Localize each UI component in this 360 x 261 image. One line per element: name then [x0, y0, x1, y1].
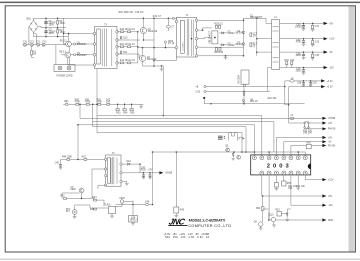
svg-text:R52: R52	[256, 208, 261, 210]
svg-text:470U: 470U	[140, 169, 146, 171]
IC U1 top pins	[252, 156, 307, 160]
resistor R15	[214, 23, 219, 28]
arrow PW-OK	[322, 127, 336, 131]
wire pin3 stub	[268, 152, 270, 156]
node tie mid	[137, 46, 139, 48]
capacitor C12	[127, 60, 135, 64]
resistor R52	[256, 207, 264, 210]
svg-text:R26: R26	[306, 143, 311, 145]
node fb row	[81, 198, 83, 200]
diode D5	[236, 42, 245, 46]
wire Q4 base	[61, 54, 65, 56]
wire mid rail A	[206, 86, 285, 88]
resistor R35	[130, 104, 135, 115]
svg-text:C39: C39	[312, 82, 317, 84]
svg-text:FR302: FR302	[228, 45, 236, 47]
choke L3	[290, 78, 294, 82]
svg-text:200V: 200V	[49, 33, 55, 35]
svg-text:R22 330: R22 330	[268, 98, 277, 100]
wire +5 fan rail	[276, 137, 322, 139]
node pin7	[297, 151, 299, 153]
svg-text:R7 10: R7 10	[168, 43, 175, 45]
Y-capacitor CY1	[36, 42, 41, 47]
resistor R42	[60, 196, 66, 200]
wire sec pin1	[198, 19, 244, 21]
resistor R33	[116, 104, 121, 115]
wire Q3 collector	[68, 34, 70, 42]
resistor R32	[97, 100, 103, 106]
wire sb rect out	[139, 164, 141, 173]
svg-text:C20: C20	[290, 60, 295, 62]
wire sense drop A	[262, 196, 264, 207]
IC U1 2003 body	[251, 155, 311, 175]
wire T3 sec row2	[117, 46, 138, 48]
arrow out row1	[322, 194, 332, 198]
ground startup row	[139, 104, 142, 108]
wire 5vsb row	[122, 172, 159, 174]
transistor Q2 main	[139, 55, 157, 61]
wire PW-OK rail	[309, 127, 323, 128]
varistor VR1	[64, 101, 69, 106]
svg-text:PS-ON: PS-ON	[328, 145, 336, 147]
capacitor C17	[250, 33, 258, 38]
wire -5v feed	[257, 51, 272, 53]
wire resistor leg	[57, 18, 59, 36]
wire T3 sec row3	[117, 62, 138, 64]
wire drive lower	[68, 58, 95, 65]
X-capacitor CX2	[29, 42, 34, 47]
wire 12v feed	[257, 38, 272, 40]
svg-text:470K: 470K	[85, 101, 91, 103]
wire +12V rail	[280, 38, 324, 40]
node midC2	[210, 103, 212, 105]
node colB top	[256, 18, 258, 20]
wire out row2	[291, 204, 323, 206]
bus B1	[97, 116, 262, 156]
optocoupler PC1	[66, 205, 90, 219]
node Q1 collector top	[143, 18, 145, 20]
node riser B	[92, 104, 94, 106]
node midC	[243, 103, 245, 105]
choke L4	[290, 115, 294, 119]
svg-text:R20: R20	[284, 60, 289, 62]
svg-text:C16: C16	[219, 52, 224, 54]
pin contact P2	[74, 53, 88, 57]
capacitor C47	[148, 169, 153, 178]
svg-text:2SC5027: 2SC5027	[77, 55, 87, 57]
svg-text:-12V: -12V	[329, 67, 334, 69]
svg-text:+12V: +12V	[328, 180, 334, 182]
arrow out row2	[322, 204, 333, 208]
wire Q1 collector	[142, 18, 144, 27]
wire bpin4 down	[283, 175, 285, 181]
wire P4 to T1	[175, 18, 177, 20]
wire T2 pin4 row	[98, 185, 106, 189]
node 12v feed	[256, 38, 258, 40]
svg-text:R21 1K: R21 1K	[250, 101, 258, 103]
capacitor C35	[311, 51, 320, 60]
svg-text:2003: 2003	[267, 163, 292, 169]
capacitor C33	[311, 38, 320, 47]
node tie top	[137, 31, 139, 33]
svg-text:200V: 200V	[49, 24, 55, 26]
resistor R17	[250, 43, 258, 48]
node half bridge top	[153, 18, 155, 20]
svg-text:330U: 330U	[296, 55, 302, 57]
wire pin4 up	[275, 138, 277, 156]
svg-text:R44: R44	[90, 209, 95, 211]
capacitor C36	[296, 67, 306, 75]
svg-text:FR302: FR302	[228, 33, 236, 35]
svg-text:+5VSB: +5VSB	[165, 173, 173, 175]
capacitor C31	[311, 23, 320, 32]
wire fb long row	[116, 204, 153, 206]
wire Q1 emitter	[142, 34, 144, 40]
svg-text:R6 2.2: R6 2.2	[59, 51, 66, 53]
node -5v feed	[256, 51, 258, 53]
resistor R41	[82, 156, 87, 160]
svg-text:C35: C35	[315, 55, 320, 57]
bus B4	[78, 125, 254, 152]
svg-text:150K: 150K	[60, 23, 66, 25]
wire sec pin4	[198, 46, 244, 48]
wire connector left leg	[55, 45, 57, 65]
IC U3	[303, 122, 312, 134]
svg-text:C52: C52	[288, 188, 293, 190]
scan shadow right	[349, 6, 355, 252]
choke L1	[272, 17, 280, 69]
node colA top	[243, 20, 245, 22]
resistor R44	[90, 208, 96, 211]
svg-text:MODEL:LC-B250ATX: MODEL:LC-B250ATX	[189, 218, 226, 222]
capacitor C16	[219, 48, 224, 55]
arrow fan	[322, 178, 333, 182]
svg-text:470U: 470U	[296, 42, 302, 44]
ground sec centre	[224, 55, 228, 59]
bus B6	[97, 133, 242, 152]
resistor R43	[92, 197, 97, 201]
svg-text:-12V: -12V	[328, 205, 333, 207]
node fb long	[152, 204, 154, 206]
svg-text:TL431: TL431	[104, 204, 111, 206]
svg-text:470K: 470K	[97, 101, 103, 103]
svg-text:C945: C945	[119, 198, 125, 200]
wire mid rail B	[206, 91, 270, 93]
node L4 end	[245, 151, 247, 153]
wire left entry	[241, 151, 255, 153]
wire DC+ drop	[63, 18, 65, 44]
node Q3 collector	[68, 33, 70, 35]
resistor R10	[120, 29, 128, 33]
node pin3	[268, 151, 270, 153]
node sense B	[268, 219, 270, 221]
snubber R20	[284, 60, 289, 68]
svg-text:C33: C33	[315, 42, 320, 44]
capacitor C10	[127, 29, 135, 33]
heat sink bars	[218, 136, 225, 140]
svg-text:1U: 1U	[253, 35, 256, 37]
heat sink clip	[239, 137, 243, 140]
wire sense drop B	[268, 212, 270, 220]
wire +3.3V sense rail	[289, 86, 322, 88]
label cluster bpins	[288, 186, 305, 190]
svg-text:Q10: Q10	[269, 214, 274, 216]
wire sec pin5	[198, 55, 244, 57]
wire sense drop column	[162, 66, 164, 116]
svg-text:KA1084: KA1084	[238, 75, 241, 84]
diode D10	[120, 36, 128, 40]
wire connector right leg	[68, 45, 70, 65]
wire T1 return	[154, 57, 176, 61]
wire pin8 stub	[304, 152, 306, 156]
arrow +5VSB local	[159, 171, 172, 175]
capacitor C7	[166, 18, 175, 31]
svg-text:1000U: 1000U	[295, 26, 302, 28]
wire Q1 base	[117, 39, 140, 41]
ground T2	[125, 183, 129, 185]
scan edge top	[0, 2, 360, 3]
bus B3	[93, 122, 274, 152]
arrow +3.3V a	[321, 79, 333, 83]
node standby row	[77, 159, 79, 161]
wire top feed to choke	[244, 18, 272, 23]
wire -12V rail	[280, 67, 324, 69]
diode D4	[236, 31, 245, 35]
bus return row	[153, 151, 306, 153]
svg-text:CY1: CY1	[36, 42, 41, 44]
capacitor C2	[44, 30, 56, 36]
node return Q5	[233, 151, 235, 153]
svg-text:GND: GND	[328, 220, 333, 222]
Y-capacitor CY2	[42, 42, 47, 47]
arrow +3.3V b	[321, 85, 333, 89]
resistor R26	[306, 143, 311, 149]
transistor Q4	[59, 51, 70, 57]
svg-text:+3.3V: +3.3V	[327, 87, 334, 89]
wire +3.3V rail	[285, 80, 322, 82]
wire +5V rail	[280, 22, 324, 24]
wire bpin5 down	[290, 175, 292, 205]
svg-text:R33: R33	[116, 112, 121, 114]
capacitor C30	[295, 23, 305, 31]
svg-text:R51 10K: R51 10K	[296, 186, 305, 188]
svg-text:C40 104: C40 104	[303, 132, 312, 134]
terminal +5S	[195, 90, 206, 93]
svg-text:2SC4242: 2SC4242	[148, 31, 158, 33]
capacitor C32	[296, 38, 306, 46]
transistor Q5	[225, 145, 229, 151]
svg-text:+12V: +12V	[329, 39, 335, 41]
resistor R1	[57, 21, 66, 25]
wire standby feed	[77, 125, 79, 160]
pad sense	[203, 97, 205, 99]
svg-text:1000U: 1000U	[130, 219, 137, 221]
wire bridge AC left leg	[28, 27, 30, 45]
svg-text:R40 150K: R40 150K	[62, 156, 73, 158]
arrow +5V	[324, 22, 334, 26]
wire T3 right vertical tie	[137, 32, 139, 63]
snubber C20	[290, 60, 295, 68]
transformer T2	[105, 153, 123, 187]
svg-text:+5VSB: +5VSB	[328, 118, 336, 120]
wire bus riser A	[79, 104, 81, 118]
svg-text:86-004: 86-004	[236, 44, 244, 46]
wire Q4 emitter row	[71, 54, 95, 56]
wire T3 return column	[96, 69, 98, 133]
arrow +5V aux	[322, 121, 332, 125]
wire drive upper	[64, 33, 95, 35]
wire pin6 up	[290, 146, 292, 156]
svg-text:+3.3V: +3.3V	[327, 81, 334, 83]
svg-text:C12 1U: C12 1U	[127, 60, 135, 62]
pin contact P1	[74, 42, 88, 46]
svg-text:+5V: +5V	[328, 196, 333, 198]
svg-text:220U: 220U	[296, 71, 302, 73]
arrow -5V	[324, 51, 333, 55]
wire bridge AC right leg	[34, 33, 37, 45]
svg-text:C10 1U: C10 1U	[127, 29, 135, 31]
capacitor C11	[127, 44, 135, 48]
svg-text:C45: C45	[55, 162, 60, 164]
wire bpin6 down	[297, 175, 299, 188]
arrow out row3	[322, 218, 333, 222]
svg-text:7RA 25A 13A 0.8A 0.5A: 7RA 25A 13A 0.8A 0.5A 2A	[165, 236, 210, 239]
svg-text:CX2: CX2	[29, 42, 34, 44]
node L5 end	[241, 151, 243, 153]
resistor R11	[120, 44, 128, 48]
wire pin1 stub	[253, 152, 255, 156]
capacitor C50	[274, 183, 278, 191]
transistor Q3	[60, 40, 71, 46]
arrow -12V	[324, 66, 335, 70]
node 3v3 link	[288, 104, 290, 106]
svg-text:R5 2.2: R5 2.2	[60, 40, 67, 42]
node colA bot	[243, 55, 245, 57]
diode D12	[122, 161, 140, 165]
bus 5VSB long	[80, 117, 323, 119]
transistor Q6	[237, 155, 241, 159]
wire Q3 emitter to pin	[71, 43, 94, 45]
svg-text:C49: C49	[145, 201, 150, 203]
wire bpin7 down	[304, 175, 306, 180]
svg-text:+5V: +5V	[328, 137, 333, 139]
zener ZD2	[232, 152, 235, 160]
node sense drop	[163, 115, 165, 117]
capacitor C49	[145, 201, 150, 205]
arrow -5	[322, 140, 332, 144]
svg-text:SBL2040CT: SBL2040CT	[210, 30, 212, 43]
pin contact P3	[164, 41, 175, 48]
svg-text:R34: R34	[123, 112, 128, 114]
resistor R16	[214, 48, 219, 55]
wire DC+ rail	[34, 18, 174, 20]
wire T2 gnd	[122, 181, 127, 183]
node mid rail A end	[284, 86, 286, 88]
node T3 return	[96, 104, 98, 106]
arrow +5VSB	[322, 117, 335, 121]
regulator U2	[238, 70, 249, 87]
capacitor C34	[296, 51, 306, 59]
wire rect column B	[256, 18, 258, 56]
IC U1 bottom pins	[260, 171, 308, 175]
svg-text:+5V: +5V	[328, 123, 333, 125]
wire mid rail C	[204, 99, 304, 104]
wire sec pin2	[198, 28, 212, 30]
resistor R53	[275, 209, 281, 216]
node rail drop	[63, 33, 65, 35]
svg-text:2SC5027: 2SC5027	[77, 44, 87, 46]
wire -5 rail	[284, 141, 323, 143]
resistor R31	[85, 100, 91, 106]
rectifier pack D1	[210, 30, 218, 44]
capacitor C42	[106, 100, 111, 106]
node sec1	[202, 29, 204, 31]
transistor Q1 main	[140, 27, 158, 33]
wire emitter to centre	[143, 39, 154, 41]
capacitor C38	[297, 80, 305, 86]
wire pin5 up	[283, 142, 285, 156]
wire Q3 base	[64, 43, 66, 45]
terminal +B	[195, 85, 206, 88]
resistor R40	[62, 156, 73, 160]
wire bpin1 down	[261, 175, 263, 196]
svg-text:-5V: -5V	[329, 52, 333, 54]
bridge rectifier BD1	[27, 19, 38, 33]
svg-text:C31: C31	[315, 26, 320, 28]
svg-text:C11 1U: C11 1U	[127, 44, 135, 46]
wire -5V rail	[280, 51, 324, 53]
capacitor C1	[44, 21, 56, 27]
node Q2 collector	[142, 47, 144, 49]
wire T2 pin2 row	[92, 169, 106, 198]
wire standby row	[61, 158, 106, 160]
node centre low	[153, 60, 155, 62]
fuse F1	[31, 46, 37, 57]
svg-text:R45: R45	[180, 210, 185, 212]
wire coupling rail	[138, 47, 177, 49]
node centre em	[153, 65, 155, 67]
wire bpin3 down	[275, 175, 277, 183]
wire sec pin3	[198, 38, 212, 39]
svg-text:R50: R50	[287, 183, 292, 185]
wire line filter row	[23, 44, 70, 46]
svg-text:-5V: -5V	[328, 142, 332, 144]
scan edge bottom	[0, 259, 360, 260]
diode D3	[220, 43, 236, 47]
transistor Q7	[70, 187, 84, 193]
label D1 name	[250, 15, 263, 19]
wire +5V aux rail	[289, 122, 323, 124]
bus B5	[93, 127, 246, 152]
AC power connector CON1	[54, 65, 75, 78]
wire reg row	[90, 200, 109, 208]
zener ZD3	[285, 212, 289, 222]
wire 3v3 link down	[285, 105, 289, 123]
junction dots input rails	[45, 18, 58, 38]
arrow PS-ON	[322, 144, 335, 148]
wire out row1	[262, 195, 323, 197]
transformer T1	[175, 15, 198, 57]
capacitor C39	[309, 80, 317, 86]
svg-text:5A: 5A	[33, 52, 36, 55]
wire bpin2 down	[268, 175, 270, 220]
logo JNC	[168, 217, 188, 227]
arrow +12V	[324, 37, 335, 41]
capacitor C15	[218, 23, 223, 28]
svg-text:COMPUTER CO.,LTD: COMPUTER CO.,LTD	[188, 223, 231, 228]
wire Q2 base	[117, 54, 139, 58]
wire fb row	[66, 197, 95, 199]
